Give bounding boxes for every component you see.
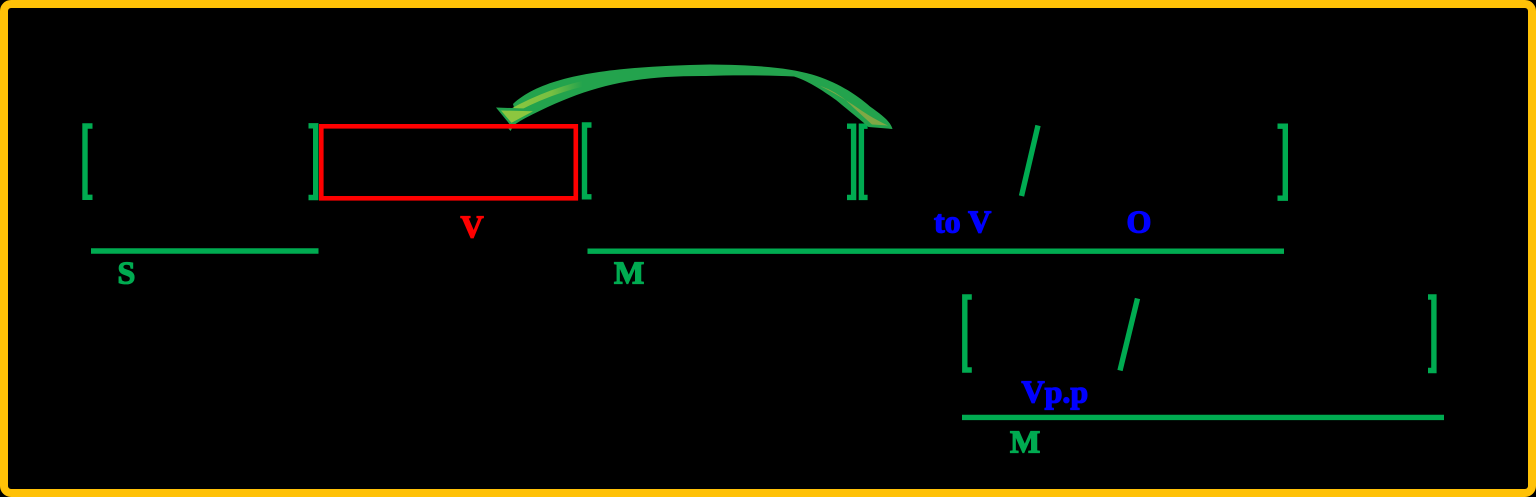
underline under subject (S line) (91, 248, 319, 253)
underline under participle modifier (M line, lower) (962, 415, 1444, 420)
svg-text:O: O (1127, 203, 1152, 239)
svg-text:S: S (118, 255, 136, 291)
bracket [ (infinitive phrase open) (861, 126, 867, 197)
svg-text:V: V (461, 209, 484, 245)
label Vp.p (blue) (1022, 373, 1089, 409)
svg-text:to V: to V (934, 203, 991, 239)
slash / (divider in participle phrase) (1120, 299, 1138, 371)
arrowhead of curved arrow (496, 108, 539, 132)
bracket [ (modifier phrase open) (585, 125, 592, 197)
bracket ] (mid close) (847, 126, 854, 197)
svg-text:M: M (1010, 424, 1040, 460)
label M (upper) (614, 255, 644, 291)
red verb box (321, 126, 576, 198)
label S (118, 255, 136, 291)
bracket ] (participle phrase close, lower) (1428, 297, 1434, 371)
label to V (blue) (934, 203, 991, 239)
label V (red, under verb box) (461, 209, 484, 245)
bracket ] (subject phrase close) (309, 126, 316, 198)
slash / (divider in infinitive phrase) (1022, 126, 1039, 197)
bracket [ (subject phrase open) (85, 126, 93, 197)
underline under modifier (M line, upper) (588, 248, 1285, 253)
label M (lower) (1010, 424, 1040, 460)
svg-text:Vp.p: Vp.p (1022, 373, 1089, 409)
svg-text:M: M (614, 255, 644, 291)
bracket [ (participle phrase open, lower) (965, 297, 972, 370)
label O (blue) (1127, 203, 1152, 239)
curved green arrow (from bracket back to verb box) (508, 65, 893, 130)
bracket ] (infinitive phrase close) (1278, 126, 1286, 198)
